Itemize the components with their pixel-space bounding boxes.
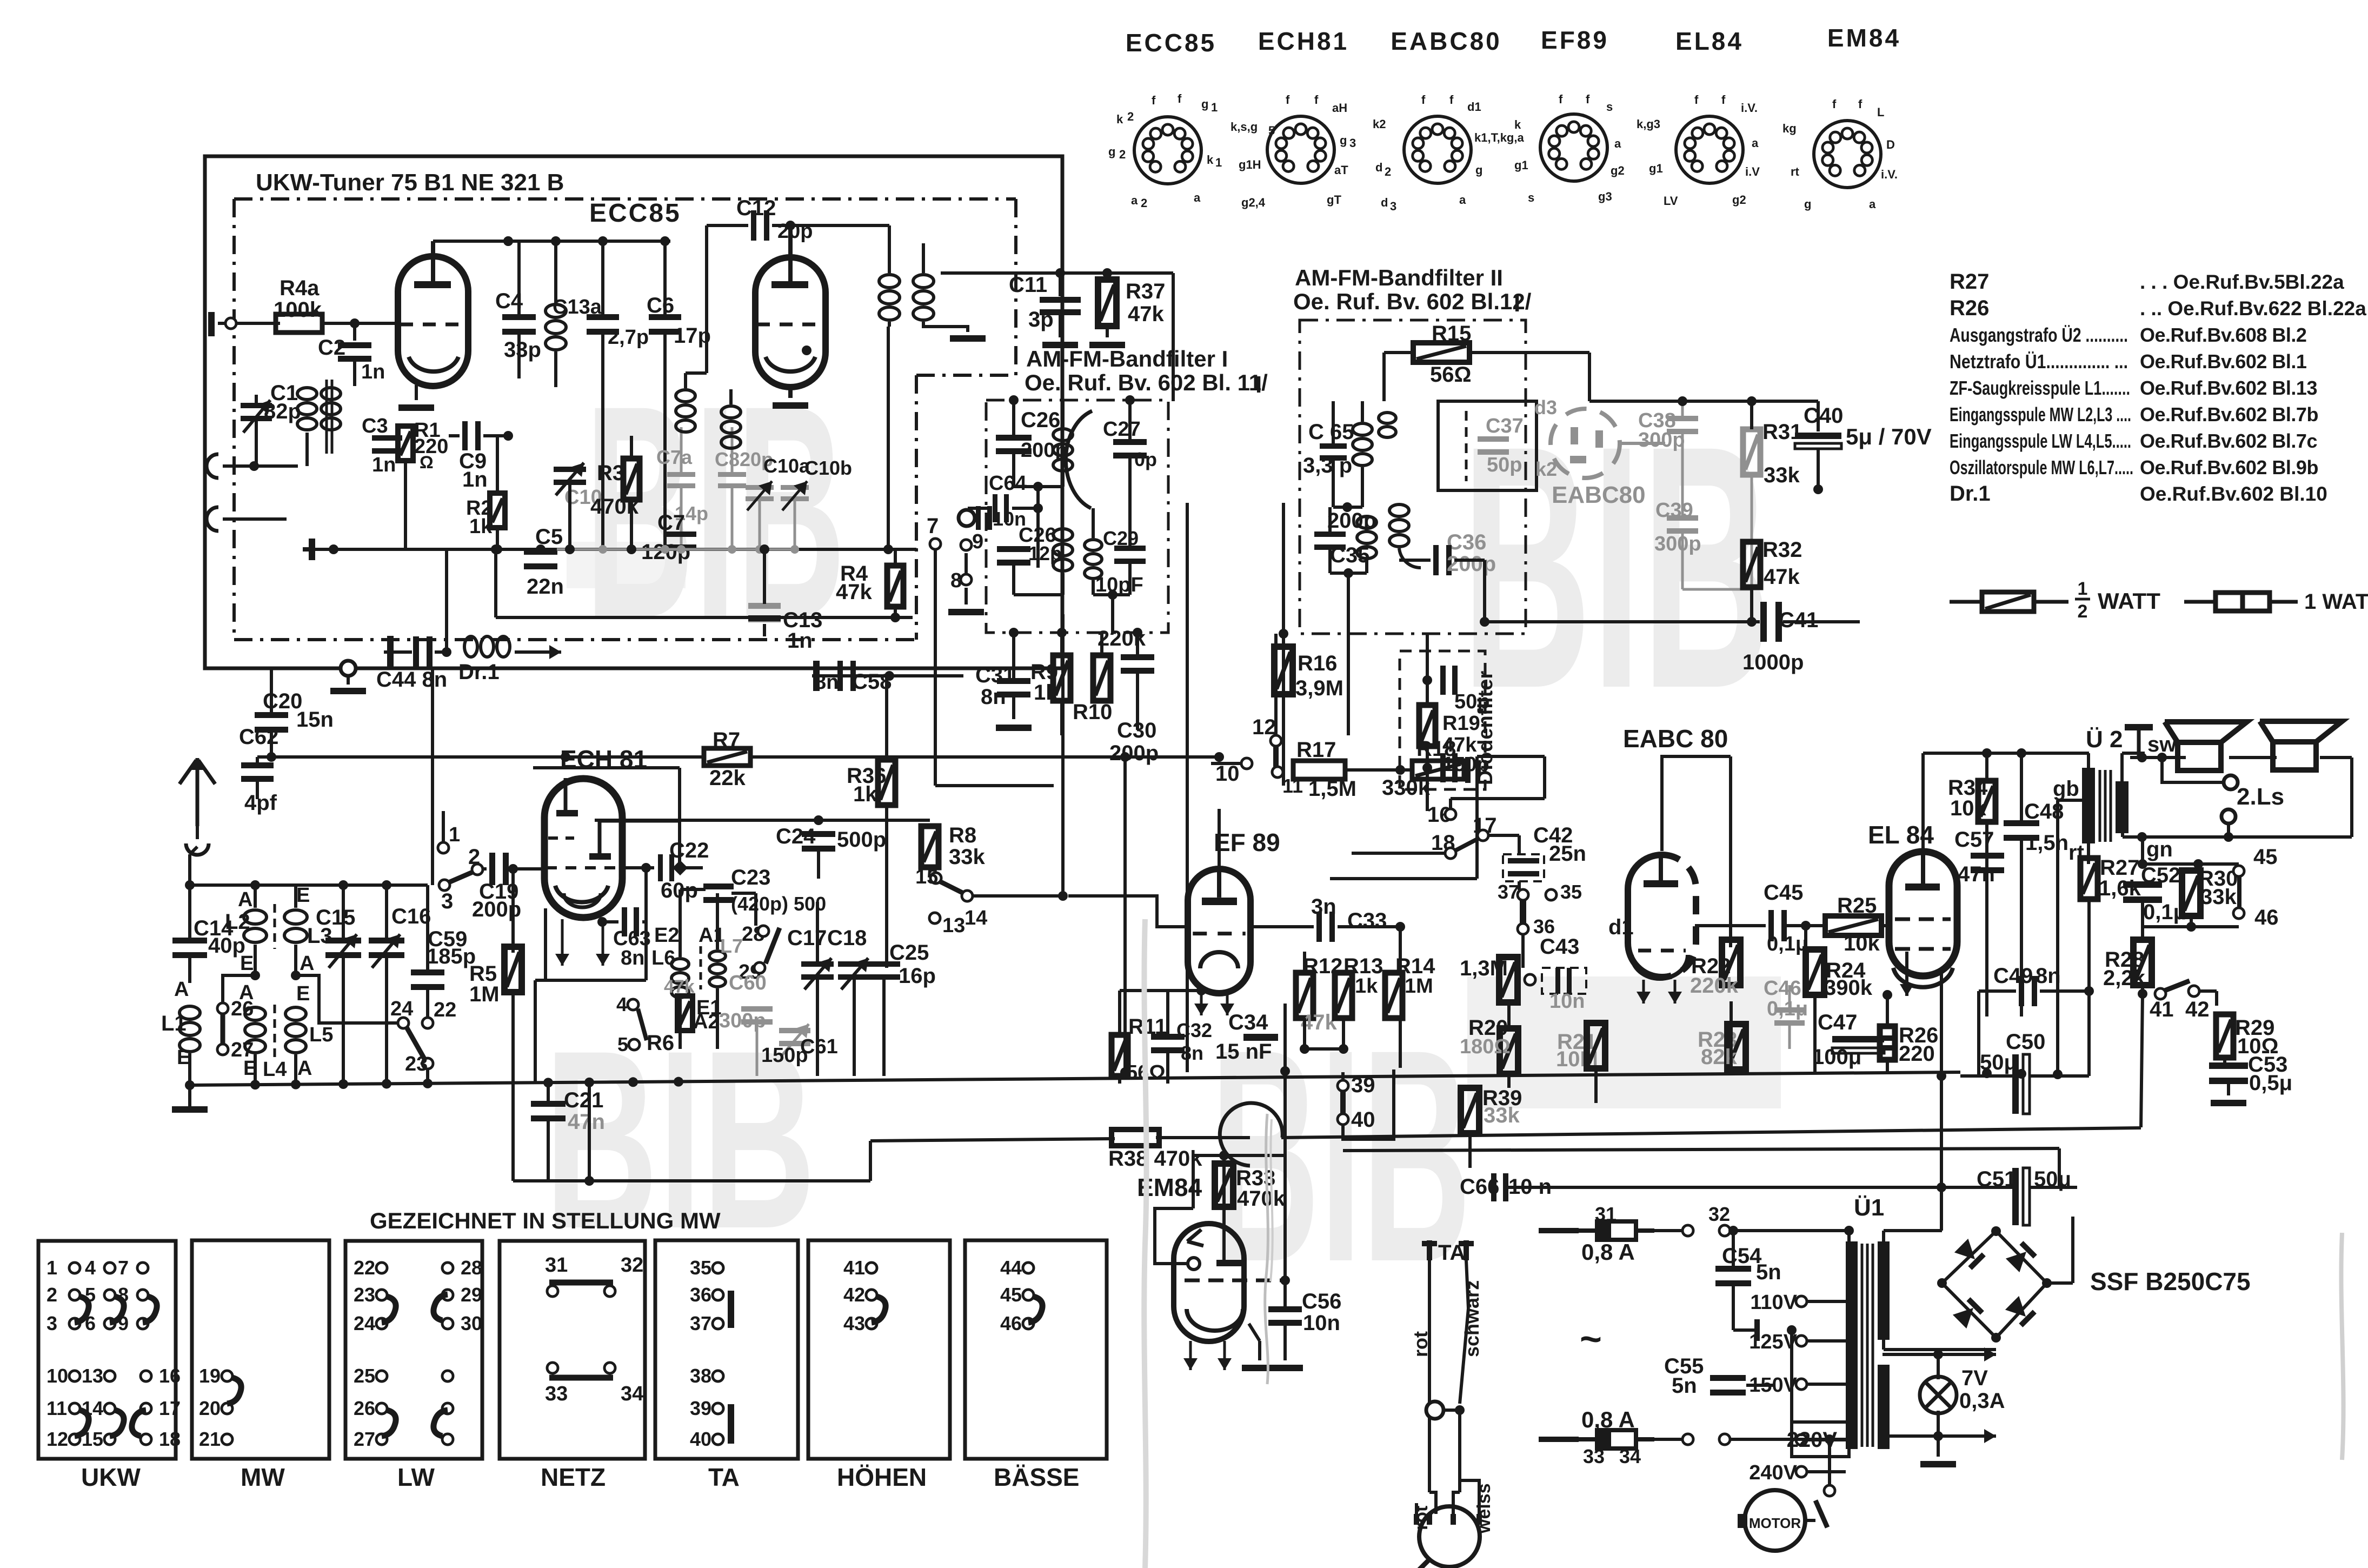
svg-text:EL84: EL84: [1675, 27, 1744, 55]
svg-text:27: 27: [354, 1428, 375, 1450]
svg-text:3: 3: [441, 889, 453, 913]
svg-text:g: g: [1201, 97, 1208, 111]
svg-text:f: f: [1449, 93, 1454, 107]
svg-text:C3: C3: [362, 415, 388, 437]
svg-text:50p: 50p: [1454, 690, 1489, 713]
svg-text:C64: C64: [989, 472, 1027, 495]
svg-text:C21: C21: [564, 1088, 603, 1112]
svg-text:47k: 47k: [1128, 302, 1164, 326]
svg-text:L6: L6: [651, 947, 675, 969]
svg-text:L7: L7: [720, 935, 743, 957]
svg-text:Eingangsspule MW L2,L3 ....: Eingangsspule MW L2,L3 ....: [1950, 403, 2131, 426]
svg-text:Oe.Ruf.Bv.602 Bl.13: Oe.Ruf.Bv.602 Bl.13: [2140, 377, 2317, 399]
svg-text:f: f: [1586, 92, 1590, 106]
svg-text:BÄSSE: BÄSSE: [994, 1463, 1079, 1491]
svg-text:22n: 22n: [527, 575, 564, 599]
svg-text:56Ω: 56Ω: [1430, 363, 1472, 387]
svg-text:8n: 8n: [815, 671, 839, 694]
svg-text:C16: C16: [391, 905, 431, 928]
svg-text:15 nF: 15 nF: [1215, 1040, 1272, 1064]
svg-text:33k: 33k: [1484, 1104, 1520, 1127]
svg-text:R16: R16: [1298, 652, 1337, 675]
svg-text:d3: d3: [1534, 396, 1557, 418]
svg-text:30: 30: [461, 1312, 482, 1334]
svg-text:17: 17: [159, 1397, 181, 1419]
svg-text:39: 39: [690, 1397, 711, 1419]
svg-text:3,3 p: 3,3 p: [1303, 454, 1352, 477]
svg-text:2: 2: [46, 1284, 57, 1306]
svg-text:20p: 20p: [777, 220, 813, 243]
svg-text:19: 19: [199, 1365, 221, 1387]
svg-text:g2,4: g2,4: [1241, 196, 1266, 209]
svg-text:d: d: [1381, 196, 1388, 209]
svg-text:A: A: [300, 952, 314, 975]
svg-text:ECH81: ECH81: [1258, 27, 1349, 55]
svg-text:C43: C43: [1540, 935, 1579, 959]
svg-text:EM84: EM84: [1827, 24, 1901, 52]
svg-text:34: 34: [1619, 1445, 1641, 1467]
svg-text:180Ω: 180Ω: [1460, 1035, 1511, 1058]
svg-text:36: 36: [1533, 915, 1555, 938]
svg-text:Netztrafo Ü1.............. ...: Netztrafo Ü1.............. ...: [1950, 350, 2128, 373]
svg-text:20: 20: [199, 1397, 221, 1419]
svg-text:d: d: [1375, 161, 1382, 174]
svg-text:C7: C7: [657, 511, 685, 535]
svg-text:E1: E1: [696, 996, 721, 1019]
svg-text:Oe.Ruf.Bv.608 Bl.2: Oe.Ruf.Bv.608 Bl.2: [2140, 324, 2306, 346]
svg-text:7V: 7V: [1961, 1366, 1988, 1390]
svg-text:220V: 220V: [1787, 1428, 1838, 1452]
svg-text:8n: 8n: [1181, 1042, 1203, 1064]
svg-text:. .. Oe.Ruf.Bv.622 Bl.22a: . .. Oe.Ruf.Bv.622 Bl.22a: [2140, 297, 2366, 320]
svg-text:R8: R8: [949, 823, 976, 847]
svg-text:C6: C6: [647, 294, 674, 317]
svg-text:R26: R26: [1950, 296, 1989, 320]
svg-text:35: 35: [1560, 881, 1582, 903]
svg-text:10: 10: [46, 1365, 68, 1387]
svg-text:1000p: 1000p: [1742, 650, 1804, 674]
svg-text:i.V.: i.V.: [1741, 101, 1758, 115]
svg-text:1: 1: [449, 823, 460, 846]
svg-text:C23: C23: [731, 866, 770, 889]
svg-text:11: 11: [46, 1397, 67, 1419]
svg-text:s: s: [1528, 191, 1534, 204]
svg-text:C22: C22: [669, 839, 709, 862]
svg-text:LV: LV: [1664, 194, 1678, 208]
svg-text:22: 22: [434, 999, 456, 1021]
svg-text:R38 470k: R38 470k: [1108, 1147, 1202, 1171]
svg-text:R4a: R4a: [280, 276, 320, 300]
svg-text:C40: C40: [1804, 404, 1843, 428]
svg-text:47n: 47n: [568, 1110, 605, 1134]
svg-text:i.V: i.V: [1745, 165, 1760, 178]
svg-text:2,7p: 2,7p: [608, 326, 649, 349]
svg-text:15: 15: [915, 866, 938, 888]
svg-text:UKW: UKW: [81, 1463, 141, 1491]
svg-text:33: 33: [1583, 1445, 1605, 1467]
svg-text:EF 89: EF 89: [1214, 828, 1280, 856]
svg-text:1k: 1k: [1355, 975, 1378, 998]
svg-text:A: A: [238, 888, 252, 911]
svg-text:f: f: [1694, 93, 1699, 107]
svg-text:C 65: C 65: [1308, 420, 1354, 444]
svg-text:1: 1: [1215, 156, 1222, 169]
svg-text:47k: 47k: [1764, 565, 1800, 589]
svg-text:1,5M: 1,5M: [1308, 777, 1356, 801]
svg-text:47k: 47k: [836, 580, 872, 604]
svg-text:300p: 300p: [719, 1009, 766, 1032]
svg-text:31: 31: [545, 1254, 568, 1277]
svg-text:C32: C32: [1176, 1019, 1212, 1041]
svg-text:R10: R10: [1073, 700, 1112, 724]
svg-text:4pf: 4pf: [244, 791, 277, 815]
svg-text:Oe. Ruf. Bv. 602 Bl. 11/: Oe. Ruf. Bv. 602 Bl. 11/: [1025, 370, 1268, 395]
svg-text:f: f: [1832, 97, 1837, 111]
svg-text:Eingangsspule LW L4,L5.....: Eingangsspule LW L4,L5.....: [1950, 430, 2131, 452]
svg-text:R6: R6: [647, 1031, 674, 1055]
svg-text:0,5μ: 0,5μ: [2249, 1071, 2292, 1095]
svg-text:g1: g1: [1514, 158, 1528, 172]
svg-text:45: 45: [2253, 845, 2278, 869]
svg-text:MOTOR: MOTOR: [1749, 1515, 1801, 1531]
svg-text:10pF: 10pF: [1095, 574, 1143, 596]
svg-text:a: a: [1752, 136, 1759, 150]
svg-text:15n: 15n: [296, 708, 334, 732]
svg-text:3: 3: [1390, 200, 1396, 213]
svg-text:33k: 33k: [1764, 463, 1800, 487]
svg-text:33: 33: [545, 1383, 568, 1405]
svg-text:220: 220: [1899, 1042, 1935, 1066]
svg-text:C36: C36: [1447, 530, 1486, 554]
svg-text:k2: k2: [1373, 117, 1386, 131]
svg-text:35: 35: [690, 1257, 711, 1279]
svg-text:L4: L4: [263, 1058, 287, 1081]
svg-text:31: 31: [1595, 1203, 1617, 1225]
svg-text:43: 43: [843, 1312, 865, 1334]
svg-text:Ü 2: Ü 2: [2086, 726, 2123, 753]
svg-text:100k: 100k: [274, 298, 322, 322]
svg-text:7: 7: [118, 1257, 129, 1279]
svg-text:a: a: [1194, 191, 1201, 204]
svg-text:34: 34: [621, 1383, 643, 1405]
svg-text:47k: 47k: [1301, 1011, 1337, 1034]
svg-text:37: 37: [1498, 881, 1519, 903]
svg-text:470k: 470k: [1237, 1187, 1286, 1211]
svg-text:Ausgangstrafo Ü2 ..........: Ausgangstrafo Ü2 ..........: [1950, 324, 2128, 346]
svg-text:L1: L1: [161, 1012, 187, 1035]
svg-text:f: f: [1286, 93, 1290, 107]
svg-text:a: a: [1614, 137, 1621, 150]
svg-text:TA: TA: [708, 1463, 740, 1491]
svg-text:C33: C33: [1347, 909, 1387, 933]
svg-text:C56: C56: [1302, 1290, 1341, 1313]
svg-text:29: 29: [461, 1284, 482, 1306]
svg-text:~: ~: [1580, 1318, 1602, 1360]
svg-text:a: a: [1131, 194, 1138, 207]
svg-text:EABC 80: EABC 80: [1623, 725, 1728, 753]
svg-text:AM-FM-Bandfilter I: AM-FM-Bandfilter I: [1026, 346, 1228, 371]
svg-text:24: 24: [390, 998, 413, 1020]
svg-text:150V: 150V: [1749, 1374, 1797, 1397]
svg-text:1,5n: 1,5n: [2025, 831, 2068, 855]
svg-text:D: D: [1886, 138, 1895, 151]
svg-text:21: 21: [199, 1428, 221, 1450]
svg-text:TA: TA: [1438, 1241, 1465, 1265]
svg-text:ECC85: ECC85: [1126, 29, 1216, 57]
svg-text:1: 1: [2078, 579, 2088, 599]
svg-text:26: 26: [354, 1397, 375, 1419]
svg-text:C10b: C10b: [804, 457, 852, 479]
svg-text:40: 40: [690, 1428, 711, 1450]
svg-text:g3: g3: [1598, 190, 1612, 203]
svg-text:g: g: [1340, 134, 1347, 147]
svg-text:C17: C17: [787, 926, 827, 950]
svg-text:37: 37: [690, 1312, 711, 1334]
svg-text:47n: 47n: [1958, 862, 1995, 886]
svg-text:330k: 330k: [1382, 776, 1431, 800]
svg-text:g2: g2: [1611, 164, 1625, 177]
svg-text:g1H: g1H: [1239, 158, 1261, 171]
svg-text:Dr.1: Dr.1: [1950, 482, 1991, 506]
svg-text:24: 24: [354, 1312, 375, 1334]
svg-text:13: 13: [82, 1365, 103, 1387]
svg-text:A: A: [174, 978, 189, 1001]
svg-text:2,2k: 2,2k: [2103, 966, 2146, 990]
svg-text:36: 36: [690, 1284, 711, 1306]
svg-text:3: 3: [46, 1312, 57, 1334]
svg-text:EABC80: EABC80: [1552, 482, 1646, 508]
svg-text:1n: 1n: [361, 361, 385, 383]
svg-text:500p: 500p: [837, 828, 886, 852]
svg-text:300p: 300p: [1638, 429, 1685, 451]
svg-text:18: 18: [159, 1428, 181, 1450]
svg-text:I: I: [1514, 290, 1520, 317]
svg-text:12: 12: [46, 1428, 68, 1450]
svg-text:33k: 33k: [2200, 885, 2237, 909]
svg-text:d1: d1: [1608, 915, 1634, 939]
svg-text:g: g: [1804, 197, 1811, 211]
svg-text:LW: LW: [397, 1463, 435, 1491]
svg-text:7: 7: [927, 514, 939, 538]
svg-text:g2: g2: [1732, 193, 1746, 207]
svg-text:C47: C47: [1818, 1011, 1857, 1034]
svg-text:240V: 240V: [1749, 1461, 1797, 1484]
svg-text:16: 16: [159, 1365, 181, 1387]
svg-text:C37: C37: [1486, 415, 1524, 437]
svg-text:k: k: [1514, 118, 1521, 131]
svg-text:k,g3: k,g3: [1637, 117, 1660, 131]
svg-text:C49: C49: [1993, 964, 2033, 988]
svg-text:rt: rt: [1791, 165, 1800, 178]
svg-text:Dr.1: Dr.1: [458, 660, 500, 684]
svg-text:110V: 110V: [1750, 1291, 1797, 1314]
svg-text:C46: C46: [1764, 977, 1801, 1000]
svg-text:33p: 33p: [504, 338, 541, 362]
svg-text:ZF-Saugkreisspule L1.......: ZF-Saugkreisspule L1.......: [1950, 377, 2130, 399]
svg-text:MW: MW: [241, 1463, 285, 1491]
svg-text:R18: R18: [1416, 737, 1456, 761]
svg-text:16p: 16p: [899, 964, 936, 988]
svg-text:14: 14: [965, 907, 987, 929]
svg-text:42: 42: [2185, 998, 2210, 1021]
svg-text:8n: 8n: [621, 947, 644, 969]
svg-text:5n: 5n: [1672, 1374, 1697, 1398]
svg-text:L: L: [1877, 105, 1884, 119]
svg-text:gT: gT: [1327, 193, 1341, 207]
svg-text:38: 38: [690, 1365, 711, 1387]
svg-text:WATT: WATT: [2098, 588, 2160, 614]
svg-text:C57: C57: [1954, 828, 1994, 852]
svg-text:0,1μ: 0,1μ: [1767, 933, 1808, 955]
svg-text:8: 8: [950, 569, 962, 592]
svg-text:5μ / 70V: 5μ / 70V: [1846, 424, 1932, 449]
svg-text:Oe.Ruf.Bv.602 Bl.7c: Oe.Ruf.Bv.602 Bl.7c: [2140, 430, 2317, 452]
svg-text:Oe.Ruf.Bv.602 Bl.7b: Oe.Ruf.Bv.602 Bl.7b: [2140, 403, 2318, 426]
svg-text:45: 45: [1000, 1284, 1022, 1306]
svg-text:41: 41: [2150, 998, 2174, 1021]
svg-text:C18: C18: [827, 926, 867, 950]
svg-text:f: f: [1421, 93, 1426, 107]
svg-text:42: 42: [843, 1284, 865, 1306]
svg-text:C27: C27: [1103, 418, 1141, 441]
svg-text:25n: 25n: [1549, 842, 1586, 866]
svg-text:L5: L5: [309, 1024, 333, 1046]
svg-text:(420p) 500: (420p) 500: [731, 893, 826, 915]
svg-text:aT: aT: [1334, 163, 1348, 177]
svg-text:SSF B250C75: SSF B250C75: [2090, 1267, 2251, 1295]
svg-text:NETZ: NETZ: [541, 1463, 606, 1491]
svg-text:s: s: [1606, 100, 1613, 114]
svg-text:22k: 22k: [709, 766, 746, 790]
svg-text:0p: 0p: [1134, 448, 1157, 470]
svg-text:1n: 1n: [787, 629, 813, 653]
svg-text:k1,T,kg,a: k1,T,kg,a: [1474, 131, 1524, 144]
svg-text:2: 2: [1127, 110, 1134, 123]
svg-text:Oe. Ruf. Bv. 602 Bl.12/: Oe. Ruf. Bv. 602 Bl.12/: [1293, 289, 1532, 314]
svg-text:2: 2: [1385, 165, 1391, 178]
svg-text:220k: 220k: [1690, 974, 1739, 998]
svg-text:f: f: [1858, 97, 1863, 111]
svg-text:50p: 50p: [1487, 454, 1522, 476]
svg-text:3,9M: 3,9M: [1295, 676, 1343, 700]
svg-text:2: 2: [1119, 148, 1126, 161]
svg-text:Oe.Ruf.Bv.602 Bl.10: Oe.Ruf.Bv.602 Bl.10: [2140, 483, 2327, 505]
svg-text:300p: 300p: [1654, 533, 1701, 555]
svg-text:390k: 390k: [1824, 976, 1873, 1000]
svg-text:23: 23: [354, 1284, 375, 1306]
svg-text:EABC80: EABC80: [1391, 27, 1502, 55]
svg-text:AM-FM-Bandfilter II: AM-FM-Bandfilter II: [1295, 265, 1503, 290]
svg-text:5n: 5n: [1756, 1260, 1781, 1284]
svg-text:125V: 125V: [1749, 1331, 1797, 1353]
svg-text:41: 41: [843, 1257, 865, 1279]
svg-text:25: 25: [354, 1365, 375, 1387]
svg-text:R31: R31: [1762, 420, 1802, 444]
svg-text:HÖHEN: HÖHEN: [837, 1463, 927, 1491]
svg-text:R19: R19: [1442, 712, 1480, 735]
svg-text:C25: C25: [889, 941, 929, 965]
svg-text:f: f: [1152, 94, 1156, 107]
svg-text:C15: C15: [316, 906, 355, 929]
svg-text:E: E: [240, 952, 254, 975]
svg-text:1n: 1n: [462, 468, 488, 491]
svg-text:g: g: [1475, 163, 1482, 177]
svg-text:2: 2: [1141, 196, 1147, 210]
svg-text:Oe.Ruf.Bv.602 Bl.9b: Oe.Ruf.Bv.602 Bl.9b: [2140, 456, 2318, 479]
svg-text:C45: C45: [1764, 881, 1803, 905]
svg-text:k: k: [1207, 153, 1214, 167]
svg-text:a: a: [1459, 193, 1466, 207]
svg-text:UKW-Tuner 75 B1 NE 321 B: UKW-Tuner 75 B1 NE 321 B: [256, 169, 564, 196]
svg-text:10k: 10k: [1844, 932, 1880, 955]
svg-text:k,s,g: k,s,g: [1230, 120, 1258, 134]
svg-text:185p: 185p: [427, 945, 476, 968]
svg-text:C26: C26: [1021, 408, 1060, 432]
svg-text:0,8 A: 0,8 A: [1581, 1239, 1635, 1265]
svg-text:10n: 10n: [1303, 1311, 1340, 1335]
svg-text:C11: C11: [1009, 273, 1047, 297]
svg-text:C10a: C10a: [763, 455, 810, 477]
svg-text:32: 32: [621, 1254, 643, 1277]
svg-text:3: 3: [1349, 136, 1356, 150]
svg-text:g: g: [1108, 145, 1115, 158]
svg-text:R27: R27: [1950, 270, 1989, 294]
svg-text:8n: 8n: [2036, 964, 2061, 988]
svg-text:aH: aH: [1332, 101, 1347, 115]
svg-text:kg: kg: [1782, 122, 1797, 135]
svg-text:A: A: [297, 1057, 312, 1080]
svg-text:g1: g1: [1649, 162, 1663, 175]
svg-text:A: A: [239, 981, 254, 1004]
svg-text:k: k: [1116, 112, 1123, 126]
svg-text:1: 1: [46, 1257, 57, 1279]
svg-text:100μ: 100μ: [1812, 1045, 1861, 1069]
svg-text:f: f: [1178, 92, 1182, 105]
svg-text:R3: R3: [597, 461, 624, 485]
svg-text:32: 32: [1708, 1203, 1730, 1225]
svg-text:C52: C52: [2141, 863, 2180, 887]
svg-text:40: 40: [1351, 1108, 1375, 1132]
svg-text:R37: R37: [1126, 280, 1165, 303]
svg-text:4: 4: [85, 1257, 96, 1279]
svg-text:d1: d1: [1467, 100, 1481, 114]
svg-text:gn: gn: [2146, 838, 2173, 861]
svg-text:C60: C60: [729, 972, 767, 994]
svg-text:44: 44: [1000, 1257, 1022, 1279]
svg-text:1M: 1M: [469, 982, 500, 1006]
svg-text:C8: C8: [715, 448, 740, 470]
svg-text:E: E: [296, 982, 310, 1005]
svg-text:gb: gb: [2053, 777, 2079, 801]
svg-text:4: 4: [616, 993, 627, 1015]
svg-text:C44 8n: C44 8n: [376, 668, 447, 692]
svg-text:200p: 200p: [1447, 552, 1496, 576]
svg-text:a: a: [1869, 197, 1876, 211]
svg-text:3p: 3p: [1028, 308, 1054, 331]
svg-text:2.Ls: 2.Ls: [2237, 783, 2284, 810]
svg-text:1k: 1k: [469, 515, 493, 538]
svg-text:Oszillatorspule MW L6,L7.....: Oszillatorspule MW L6,L7.....: [1950, 456, 2133, 479]
svg-text:1k: 1k: [853, 782, 877, 806]
svg-text:22: 22: [354, 1257, 375, 1279]
svg-text:E: E: [296, 884, 310, 907]
svg-text:1n: 1n: [372, 454, 396, 476]
svg-text:1: 1: [1211, 101, 1218, 114]
svg-text:1M: 1M: [1405, 975, 1433, 998]
svg-text:f: f: [1559, 92, 1563, 106]
svg-text:46: 46: [1000, 1312, 1022, 1334]
svg-text:f: f: [1721, 93, 1726, 107]
